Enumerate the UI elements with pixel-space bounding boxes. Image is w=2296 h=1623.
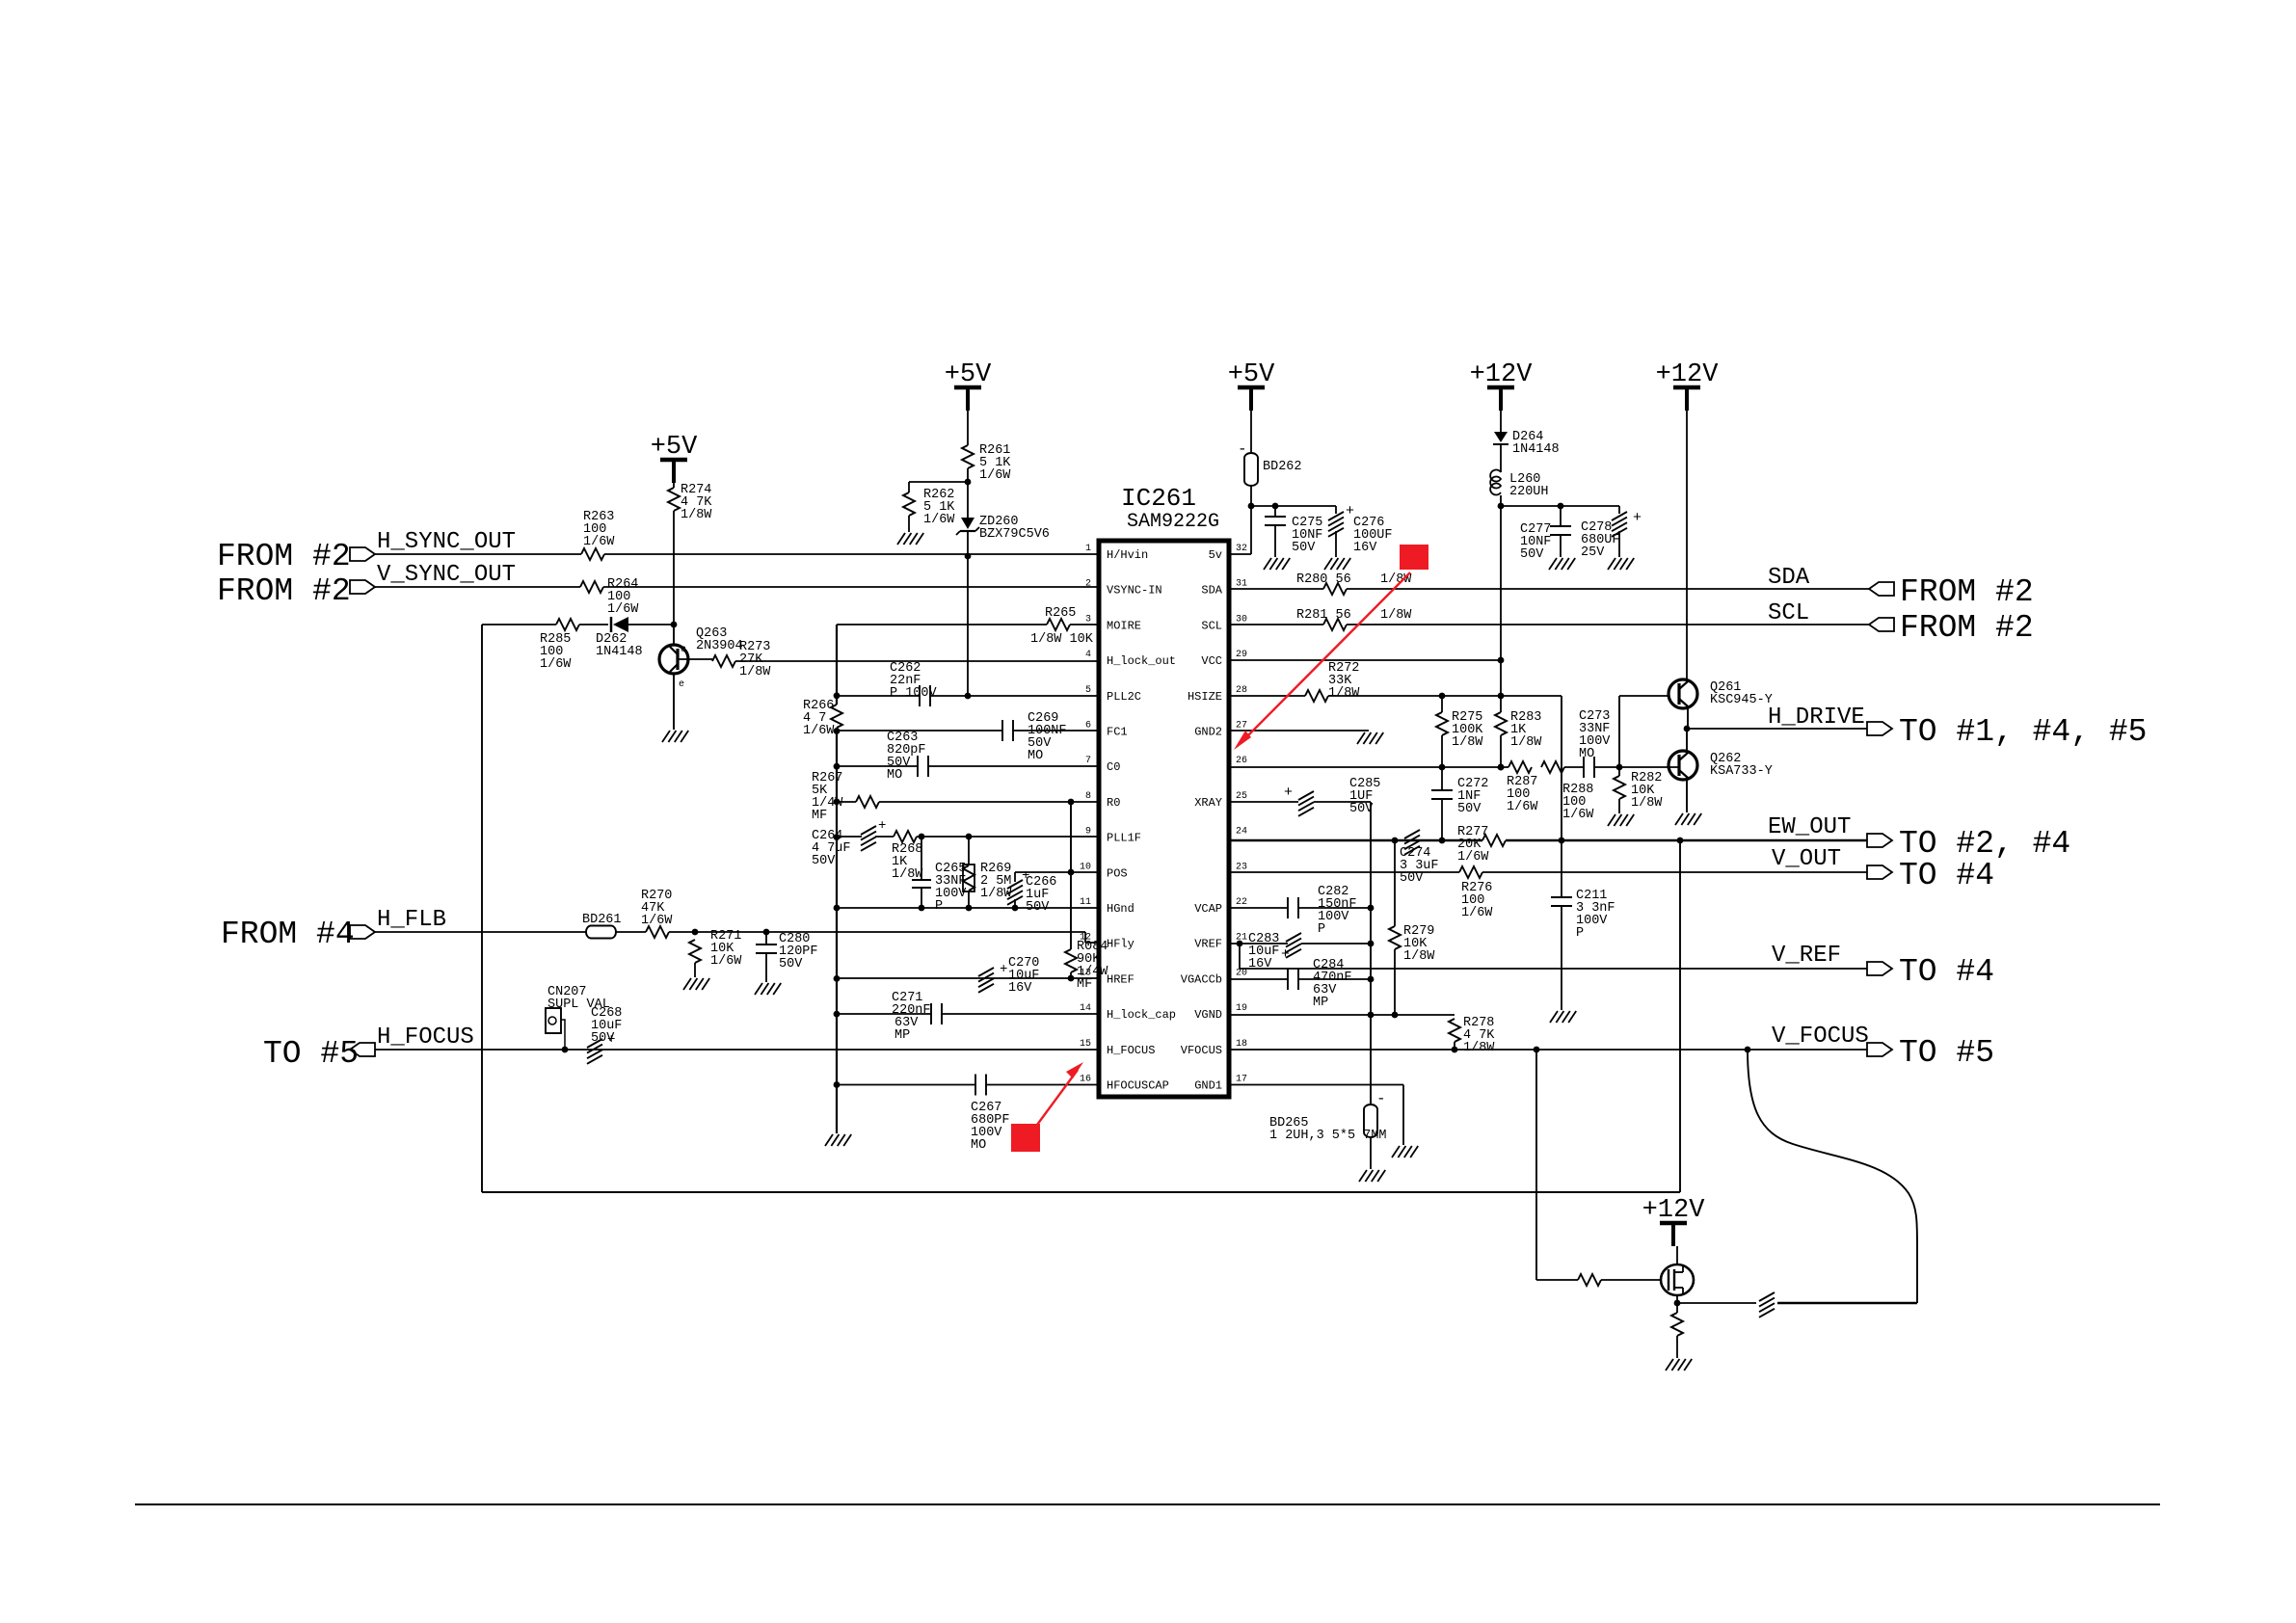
svg-text:5: 5 [1085,685,1091,696]
svg-text:18: 18 [1236,1039,1247,1050]
svg-text:1/6W: 1/6W [1457,850,1489,865]
svg-text:P: P [935,899,943,914]
svg-text:1/8W: 1/8W [681,508,712,522]
svg-text:+: + [1633,510,1642,526]
svg-text:+: + [1281,946,1290,963]
svg-text:TO #2, #4: TO #2, #4 [1899,826,2070,862]
svg-text:HFOCUSCAP: HFOCUSCAP [1107,1079,1169,1093]
svg-text:IC261: IC261 [1121,484,1196,513]
svg-text:+12V: +12V [1470,360,1534,389]
svg-text:1N4148: 1N4148 [596,645,643,659]
svg-text:1: 1 [1085,544,1091,554]
svg-text:6: 6 [1085,721,1091,732]
svg-text:R265: R265 [1045,606,1076,621]
svg-text:c: c [681,645,686,655]
svg-text:VGACCb: VGACCb [1181,972,1222,986]
svg-text:14: 14 [1080,1003,1091,1014]
svg-text:H_DRIVE: H_DRIVE [1768,705,1865,731]
svg-text:VCAP: VCAP [1194,902,1222,916]
svg-text:HSIZE: HSIZE [1188,690,1222,704]
svg-text:50V: 50V [591,1031,615,1046]
svg-text:PLL1F: PLL1F [1107,832,1141,845]
svg-text:P 100V: P 100V [890,686,938,701]
svg-text:R280 56: R280 56 [1296,572,1351,587]
svg-text:V_OUT: V_OUT [1772,846,1841,872]
svg-text:GND2: GND2 [1194,726,1222,739]
svg-text:VREF: VREF [1194,938,1222,951]
svg-text:BD261: BD261 [582,913,622,927]
svg-text:1/8W: 1/8W [1328,686,1360,701]
svg-text:26: 26 [1236,756,1247,766]
svg-text:50V: 50V [1520,547,1544,562]
svg-text:1 2UH,3 5*5 7MM: 1 2UH,3 5*5 7MM [1269,1129,1387,1143]
svg-text:MOIRE: MOIRE [1107,619,1141,632]
svg-text:9: 9 [1085,827,1091,838]
svg-text:POS: POS [1107,866,1128,880]
svg-text:50V: 50V [1292,541,1316,555]
svg-text:V_REF: V_REF [1772,943,1841,969]
svg-text:31: 31 [1236,579,1247,590]
svg-text:50V: 50V [1457,802,1482,816]
svg-text:FC1: FC1 [1107,726,1128,739]
svg-text:VCC: VCC [1201,654,1222,668]
svg-text:MF: MF [812,809,827,823]
svg-text:R0: R0 [1107,796,1120,810]
svg-text:H_SYNC_OUT: H_SYNC_OUT [377,529,516,555]
svg-text:HFly: HFly [1107,938,1135,951]
svg-text:H_FLB: H_FLB [377,907,446,933]
svg-text:MF: MF [1077,977,1092,992]
svg-text:XRAY: XRAY [1194,796,1222,810]
svg-text:H_lock_cap: H_lock_cap [1107,1008,1176,1022]
svg-text:SCL: SCL [1201,619,1222,632]
svg-text:23: 23 [1236,862,1247,872]
svg-text:TO #5: TO #5 [263,1036,359,1072]
svg-text:1/6W: 1/6W [540,657,572,672]
svg-text:MO: MO [1028,749,1043,763]
svg-text:EW_OUT: EW_OUT [1768,814,1851,840]
svg-text:28: 28 [1236,685,1247,696]
svg-text:8: 8 [1085,791,1091,802]
svg-text:TO #4: TO #4 [1899,858,1994,893]
svg-text:1/6W: 1/6W [641,914,673,928]
svg-text:TO #5: TO #5 [1899,1035,1994,1071]
svg-text:-: - [1376,1090,1386,1107]
svg-text:1/8W: 1/8W [1631,796,1663,811]
svg-text:1/6W: 1/6W [803,724,835,738]
svg-text:V_SYNC_OUT: V_SYNC_OUT [377,562,516,588]
svg-text:H/Hvin: H/Hvin [1107,548,1148,562]
svg-text:1/8W: 1/8W [1452,735,1483,750]
svg-text:GND1: GND1 [1194,1079,1222,1093]
svg-text:5v: 5v [1209,548,1222,562]
svg-text:HREF: HREF [1107,972,1135,986]
svg-text:BZX79C5V6: BZX79C5V6 [979,527,1050,542]
svg-text:24: 24 [1236,827,1247,838]
svg-text:220UH: 220UH [1509,485,1549,499]
svg-text:20: 20 [1236,968,1247,978]
svg-text:TO #1, #4, #5: TO #1, #4, #5 [1899,714,2147,750]
svg-text:FROM #4: FROM #4 [221,917,355,952]
svg-text:+: + [1000,962,1007,977]
svg-text:FROM #2: FROM #2 [217,539,351,574]
svg-text:1N4148: 1N4148 [1512,442,1560,457]
svg-text:FROM #2: FROM #2 [1900,574,2034,610]
svg-text:29: 29 [1236,650,1247,660]
svg-text:1/6W: 1/6W [710,954,742,969]
svg-text:V_FOCUS: V_FOCUS [1772,1024,1869,1050]
svg-text:MP: MP [894,1028,910,1043]
svg-text:+5V: +5V [945,360,992,389]
svg-text:MP: MP [1313,996,1328,1010]
svg-text:KSA733-Y: KSA733-Y [1710,764,1773,779]
svg-text:+12V: +12V [1656,360,1720,389]
svg-text:1/8W: 1/8W [1463,1041,1495,1055]
svg-text:1/6W: 1/6W [1507,800,1538,814]
svg-text:VGND: VGND [1194,1008,1222,1022]
svg-text:1/6W: 1/6W [1562,808,1594,822]
svg-text:25: 25 [1236,791,1247,802]
svg-text:H_FOCUS: H_FOCUS [1107,1044,1155,1057]
svg-text:KSC945-Y: KSC945-Y [1710,693,1773,707]
svg-text:+12V: +12V [1642,1196,1706,1225]
svg-text:P: P [1318,922,1325,937]
svg-text:16V: 16V [1008,981,1032,996]
svg-text:+: + [878,818,886,834]
svg-text:+5V: +5V [651,433,698,462]
svg-text:SCL: SCL [1768,600,1809,626]
svg-text:1/6W: 1/6W [923,513,955,527]
svg-text:1/8W 10K: 1/8W 10K [1030,632,1094,647]
svg-text:SDA: SDA [1768,565,1810,591]
svg-text:2: 2 [1085,579,1091,590]
svg-text:17: 17 [1236,1075,1247,1085]
svg-text:1/6W: 1/6W [979,468,1011,483]
svg-text:C0: C0 [1107,760,1120,774]
svg-text:MO: MO [971,1138,986,1153]
svg-text:15: 15 [1080,1039,1091,1050]
svg-text:50V: 50V [812,854,836,868]
svg-text:VFOCUS: VFOCUS [1181,1044,1222,1057]
svg-text:SDA: SDA [1201,584,1222,598]
svg-text:FROM #2: FROM #2 [1900,610,2034,646]
svg-text:e: e [679,679,684,690]
svg-text:1/8W: 1/8W [739,665,771,679]
svg-text:HGnd: HGnd [1107,902,1135,916]
svg-text:1/8W: 1/8W [1380,608,1412,623]
svg-text:H_lock_out: H_lock_out [1107,654,1176,668]
svg-text:FROM #2: FROM #2 [217,573,351,609]
svg-text:16V: 16V [1353,541,1377,555]
svg-text:16: 16 [1080,1075,1091,1085]
svg-text:P: P [1576,926,1584,941]
svg-text:MO: MO [1579,747,1594,761]
svg-text:19: 19 [1236,1003,1247,1014]
svg-text:BD262: BD262 [1263,460,1302,474]
svg-text:1/6W: 1/6W [1461,906,1493,920]
svg-text:4: 4 [1085,650,1091,660]
svg-text:+5V: +5V [1228,360,1275,389]
svg-text:22: 22 [1236,897,1247,908]
svg-text:1/6W: 1/6W [583,535,615,549]
svg-text:50V: 50V [1400,871,1424,886]
svg-text:10: 10 [1080,862,1091,872]
svg-text:MO: MO [887,768,902,783]
svg-text:1/8W: 1/8W [1403,949,1435,964]
svg-text:H_FOCUS: H_FOCUS [377,1024,474,1051]
svg-text:1/8W: 1/8W [1510,735,1542,750]
svg-text:R281 56: R281 56 [1296,608,1351,623]
svg-text:PLL2C: PLL2C [1107,690,1141,704]
svg-text:SAM9222G: SAM9222G [1127,511,1219,533]
svg-text:TO #4: TO #4 [1899,954,1994,990]
svg-text:25V: 25V [1581,545,1605,560]
svg-text:30: 30 [1236,614,1247,625]
svg-text:+: + [1284,785,1293,801]
svg-text:11: 11 [1080,897,1091,908]
svg-text:VSYNC-IN: VSYNC-IN [1107,584,1162,598]
svg-text:1/6W: 1/6W [607,602,639,617]
svg-text:50V: 50V [779,957,803,971]
svg-text:27: 27 [1236,721,1247,732]
svg-text:7: 7 [1085,756,1091,766]
svg-text:2N3904: 2N3904 [696,639,743,653]
svg-text:3: 3 [1085,614,1091,625]
svg-text:32: 32 [1236,544,1247,554]
